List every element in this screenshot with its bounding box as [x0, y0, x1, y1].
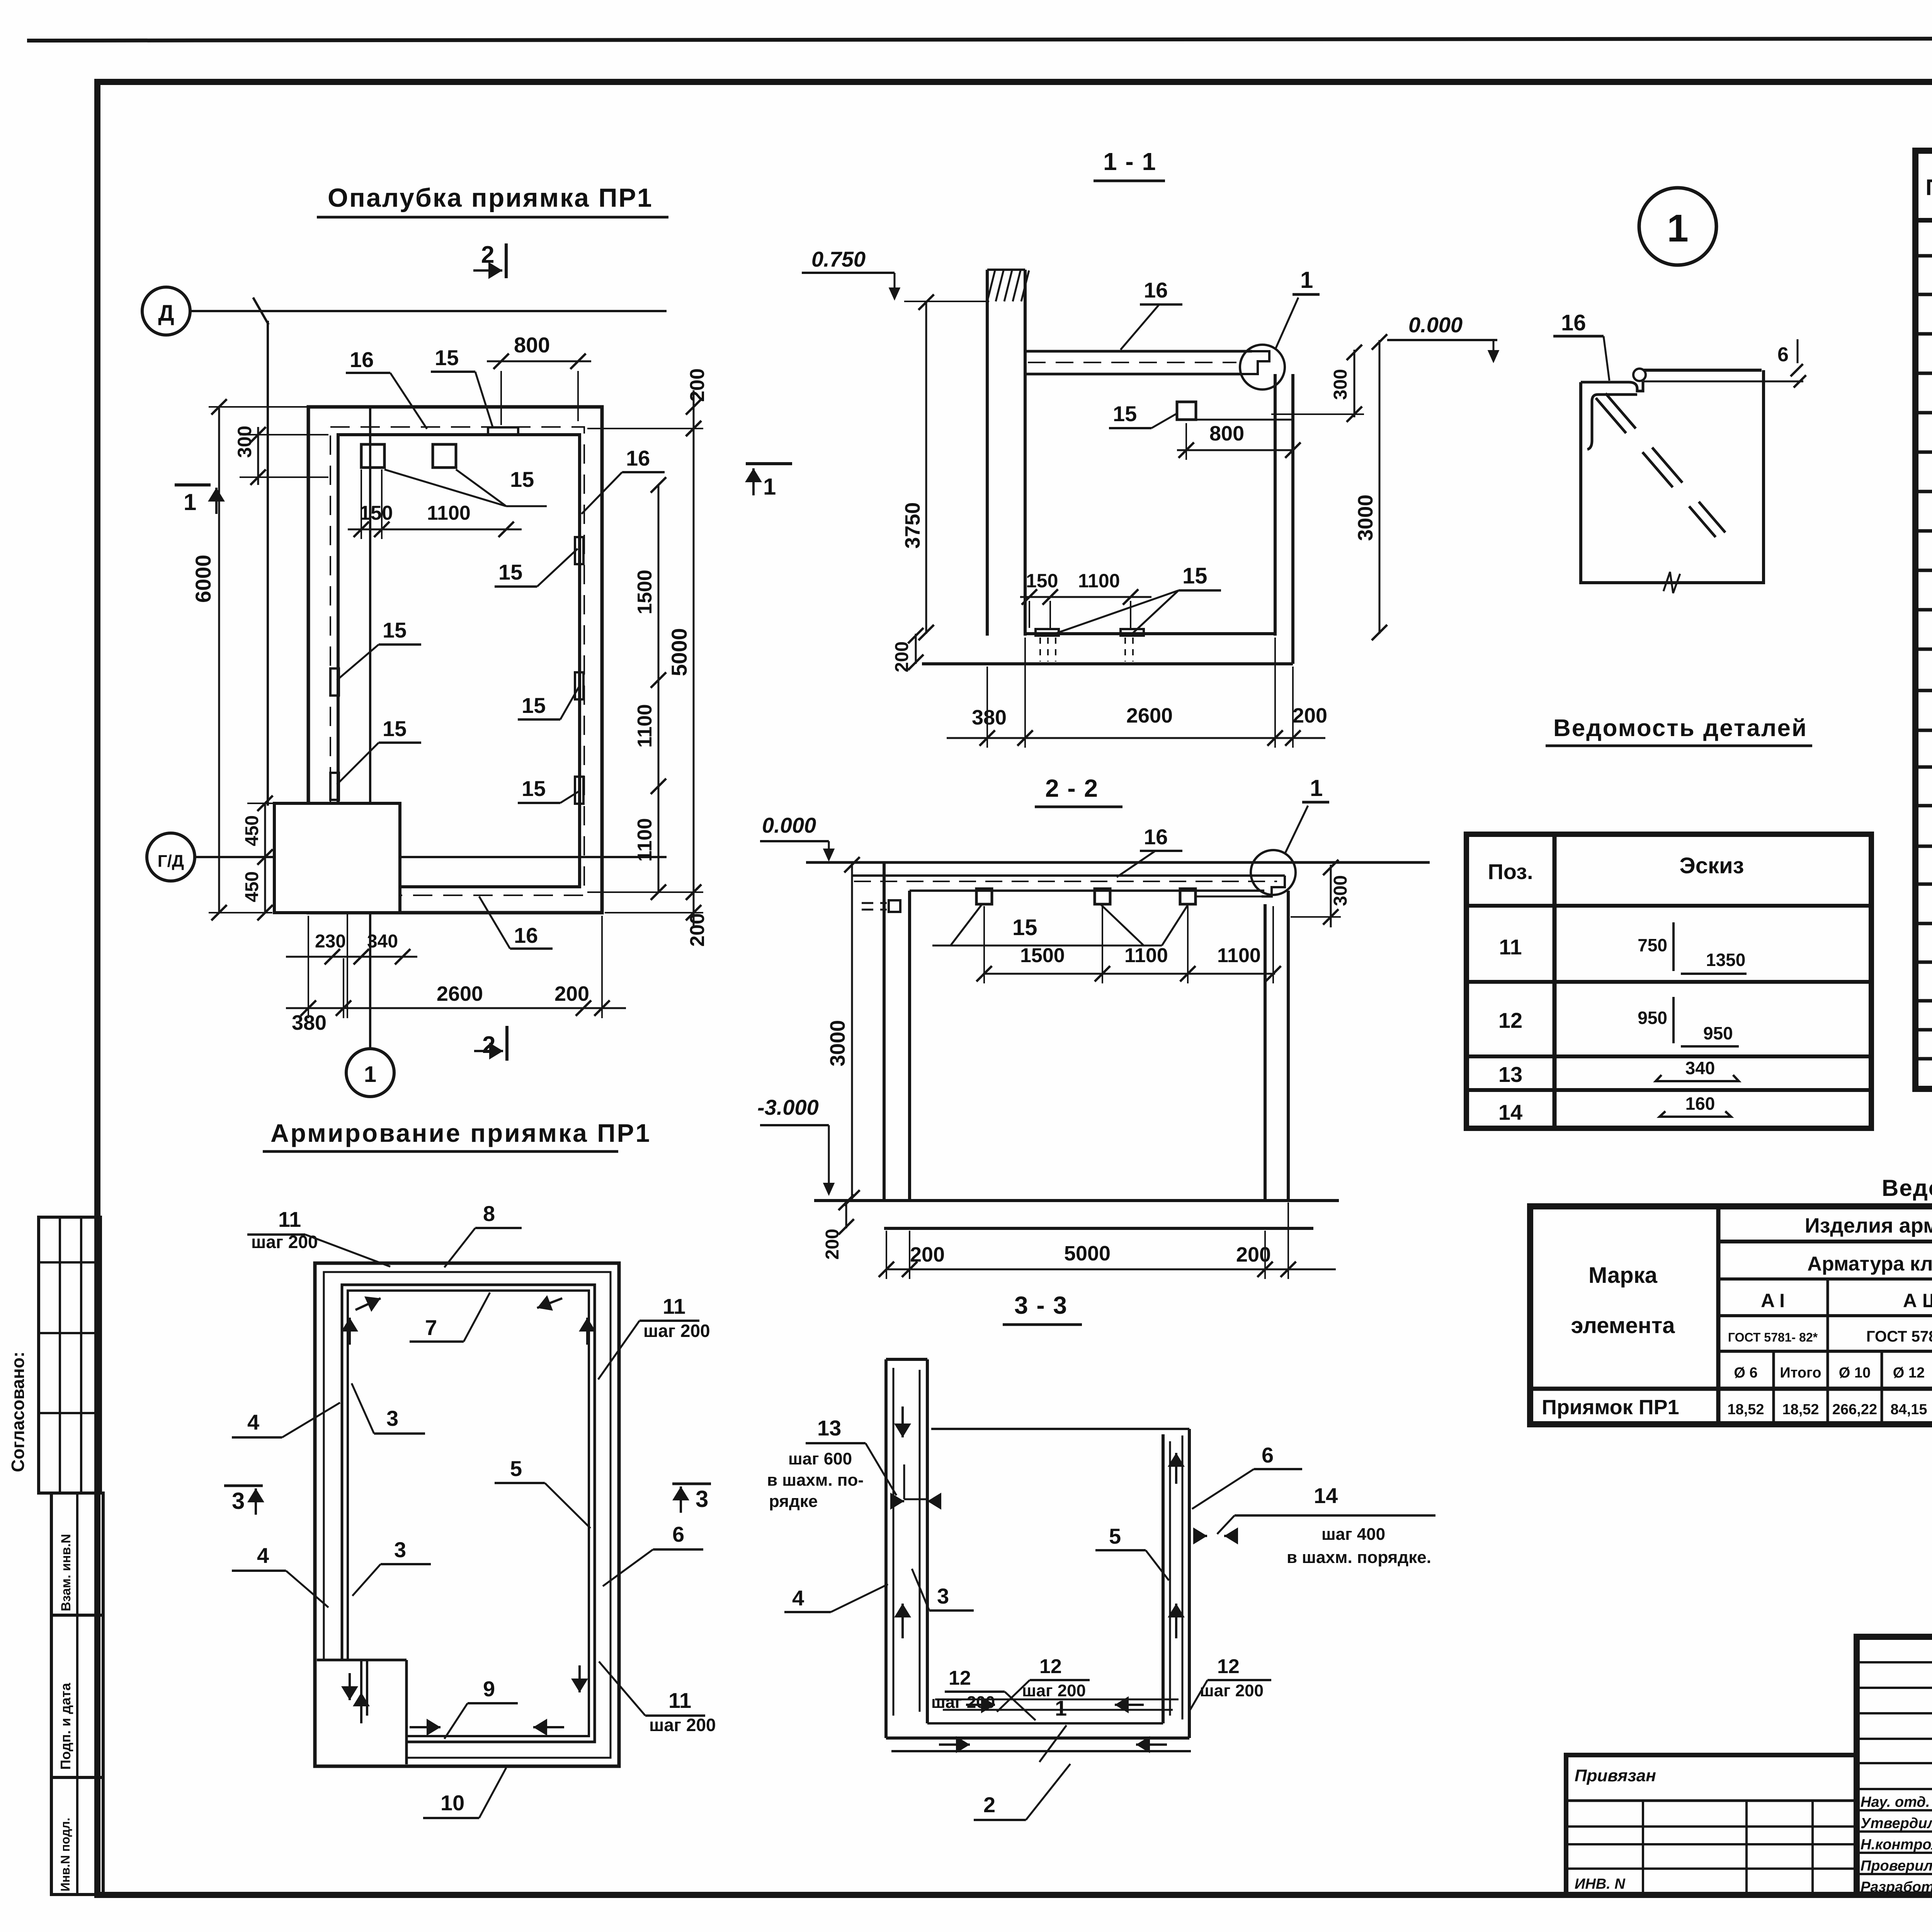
- svg-text:16: 16: [1144, 825, 1168, 849]
- 3-3 left upstand rebar: [893, 1368, 895, 1716]
- 1-1 floor slab: [1025, 632, 1275, 635]
- svg-text:Привязан: Привязан: [1575, 1766, 1656, 1785]
- arm mid contour: [324, 1272, 611, 1758]
- svg-text:Ø 6: Ø 6: [1734, 1365, 1757, 1381]
- 3-3 step600 marks: [903, 1464, 905, 1499]
- arm outer contour: [315, 1263, 619, 1766]
- svg-text:1100: 1100: [1124, 944, 1168, 967]
- svg-text:15: 15: [1012, 915, 1037, 940]
- svg-text:рядке: рядке: [769, 1492, 818, 1511]
- axis 1 circle bottom: [346, 1049, 394, 1097]
- svg-text:Г/Д: Г/Д: [158, 852, 184, 871]
- svg-text:16: 16: [514, 923, 538, 947]
- svg-text:2600: 2600: [437, 982, 483, 1005]
- svg-text:A I: A I: [1761, 1290, 1785, 1311]
- 3-3 right rebar: [1169, 1441, 1171, 1716]
- svg-text:16: 16: [1561, 310, 1586, 335]
- svg-text:1: 1: [364, 1062, 376, 1087]
- steel marka cell: [1716, 1206, 1721, 1424]
- svg-text:6: 6: [1777, 344, 1789, 366]
- svg-text:300: 300: [1330, 875, 1351, 906]
- plan inner wall: [338, 435, 580, 887]
- svg-text:9: 9: [483, 1677, 495, 1701]
- embedded plates left wall: [330, 668, 339, 696]
- 2-2 left wall: [883, 862, 886, 1201]
- axis G/D line: [195, 856, 667, 858]
- svg-text:Марка: Марка: [1588, 1263, 1658, 1288]
- svg-text:Армирование приямка ПР1: Армирование приямка ПР1: [270, 1119, 651, 1147]
- svg-text:0.000: 0.000: [762, 813, 816, 837]
- plan step rectangle: [274, 803, 400, 913]
- svg-text:2: 2: [481, 241, 494, 268]
- svg-text:4: 4: [247, 1410, 259, 1434]
- steel table grid: [1530, 1206, 1932, 1424]
- svg-text:шаг 400: шаг 400: [1321, 1525, 1385, 1544]
- svg-text:5000: 5000: [667, 628, 691, 676]
- 1-1 right wall: [1274, 374, 1277, 636]
- 1-1 floor plates: [1036, 629, 1059, 636]
- svg-text:Ведомость деталей: Ведомость деталей: [1553, 715, 1808, 742]
- 1-1 embedded square: [1177, 402, 1196, 420]
- arm step rebar: [360, 1660, 362, 1719]
- podp i data cell: [51, 1615, 103, 1777]
- svg-text:11: 11: [278, 1207, 301, 1231]
- svg-text:1: 1: [763, 474, 776, 500]
- svg-text:15: 15: [510, 467, 534, 492]
- arm direction arrows: [355, 1298, 381, 1310]
- svg-text:1: 1: [1310, 775, 1323, 801]
- 3-3 top edge right part: [931, 1428, 1189, 1430]
- dim 450 450 left: [264, 803, 266, 913]
- dim 230 340: [286, 956, 417, 958]
- svg-text:12: 12: [1039, 1655, 1062, 1678]
- svg-text:3: 3: [386, 1406, 398, 1430]
- svg-text:4: 4: [257, 1543, 269, 1568]
- detail plate top line: [1643, 369, 1762, 372]
- arm rebar rect outer: [342, 1285, 595, 1742]
- svg-text:Проверил: Проверил: [1861, 1858, 1932, 1874]
- svg-text:1500: 1500: [1020, 944, 1065, 967]
- 1-1 wall lines: [986, 270, 989, 636]
- svg-text:150: 150: [359, 502, 393, 524]
- svg-text:1100: 1100: [634, 704, 656, 748]
- detail plate small circle: [1633, 369, 1646, 381]
- axis D line: [190, 310, 667, 312]
- 2-2 left plate detail: [889, 900, 900, 912]
- svg-text:450: 450: [242, 871, 262, 902]
- svg-text:11: 11: [663, 1294, 685, 1318]
- dim 5000 right: [693, 429, 695, 892]
- svg-text:12: 12: [1217, 1655, 1240, 1678]
- svg-text:15: 15: [1113, 401, 1137, 426]
- svg-text:Н.контроль: Н.контроль: [1861, 1837, 1932, 1853]
- svg-text:12: 12: [1498, 1008, 1522, 1032]
- 2-2 top slab: [852, 874, 1285, 877]
- soglasovano block grid: [39, 1217, 100, 1493]
- svg-text:10: 10: [440, 1791, 464, 1815]
- svg-text:1: 1: [1300, 267, 1313, 293]
- svg-text:ГОСТ 5781- 82*: ГОСТ 5781- 82*: [1866, 1328, 1932, 1345]
- svg-text:1100: 1100: [1217, 944, 1261, 967]
- svg-text:элемента: элемента: [1571, 1313, 1675, 1338]
- 1-1 dim 3000: [1379, 340, 1381, 634]
- svg-text:ГОСТ 5781- 82*: ГОСТ 5781- 82*: [1728, 1330, 1818, 1344]
- svg-text:1: 1: [184, 489, 196, 515]
- svg-text:Д: Д: [158, 301, 174, 326]
- svg-text:6000: 6000: [191, 554, 215, 603]
- svg-text:5: 5: [1109, 1524, 1121, 1548]
- 2-2 right wall: [1287, 891, 1290, 1201]
- svg-text:3000: 3000: [1354, 495, 1377, 541]
- svg-text:0.000: 0.000: [1408, 313, 1463, 337]
- detail body outline: [1581, 370, 1764, 583]
- svg-text:266,22: 266,22: [1832, 1401, 1877, 1418]
- svg-text:3: 3: [394, 1537, 406, 1562]
- axis vertical line 1: [369, 406, 371, 1049]
- arm step cutout: [317, 1660, 406, 1764]
- 3-3 right wall: [1162, 1434, 1165, 1723]
- 3-3 bottom slab: [886, 1736, 1189, 1740]
- svg-text:3000: 3000: [826, 1020, 849, 1066]
- svg-text:в шахм. порядке.: в шахм. порядке.: [1287, 1548, 1431, 1567]
- vedomost detaley table: [1466, 834, 1871, 1128]
- svg-text:18,52: 18,52: [1727, 1401, 1764, 1418]
- svg-text:12: 12: [949, 1667, 971, 1689]
- svg-text:Подп. и дата: Подп. и дата: [58, 1682, 73, 1770]
- svg-text:950: 950: [1703, 1023, 1733, 1043]
- 3-3 bottom rebar lines: [935, 1699, 1179, 1701]
- 3-3 arrows bottom: [966, 1704, 995, 1706]
- svg-text:200: 200: [686, 368, 709, 402]
- svg-text:800: 800: [1209, 422, 1244, 445]
- guide vertical 230: [347, 806, 348, 1018]
- 1-1 top slab: [1025, 350, 1252, 353]
- 2-2 ground line: [806, 861, 1430, 864]
- svg-text:шаг 200: шаг 200: [1022, 1681, 1086, 1700]
- svg-text:Эскиз: Эскиз: [1679, 853, 1744, 878]
- title block outline: [1857, 1637, 1932, 1895]
- svg-text:84,15: 84,15: [1890, 1401, 1927, 1418]
- arm rebar rect inner: [348, 1291, 589, 1736]
- plan outer wall: [308, 407, 602, 913]
- embedded plates right wall: [575, 537, 583, 564]
- svg-text:340: 340: [367, 931, 398, 952]
- detail N break mark: [1663, 572, 1680, 593]
- svg-text:6: 6: [1262, 1443, 1274, 1467]
- svg-text:16: 16: [1144, 278, 1168, 302]
- svg-text:13: 13: [817, 1416, 841, 1440]
- 2-2 bottom dim 200 5000 200: [886, 1269, 1336, 1270]
- svg-text:7: 7: [425, 1315, 437, 1340]
- svg-text:5000: 5000: [1064, 1242, 1111, 1265]
- bottom dim 380 2600 200: [286, 1007, 626, 1009]
- svg-text:ИНВ. N: ИНВ. N: [1575, 1876, 1626, 1892]
- svg-text:380: 380: [972, 706, 1007, 729]
- svg-text:15: 15: [383, 618, 406, 642]
- svg-text:8: 8: [483, 1201, 495, 1226]
- embedded squares 15 on top wall: [361, 444, 384, 468]
- svg-text:16: 16: [350, 347, 374, 372]
- svg-text:340: 340: [1685, 1058, 1715, 1078]
- svg-text:16: 16: [626, 446, 650, 470]
- 1-1 existing wall hatch: [987, 269, 1025, 271]
- axis G/D circle: [147, 833, 195, 881]
- svg-text:3: 3: [232, 1488, 245, 1514]
- dim 6000 left: [218, 407, 220, 913]
- svg-text:2600: 2600: [1126, 704, 1173, 727]
- svg-text:230: 230: [315, 931, 346, 952]
- inv N podl cell: [51, 1777, 103, 1895]
- svg-text:15: 15: [383, 716, 406, 741]
- svg-text:300: 300: [1330, 369, 1351, 400]
- svg-text:11: 11: [1499, 935, 1522, 959]
- 2-2 slab corner detail: [1262, 876, 1285, 896]
- svg-text:Изделия арматурные: Изделия арматурные: [1805, 1214, 1932, 1237]
- svg-text:5: 5: [510, 1456, 522, 1481]
- vzam inv N cell: [51, 1493, 103, 1615]
- svg-text:1: 1: [1055, 1696, 1067, 1720]
- svg-text:750: 750: [1638, 935, 1667, 955]
- 1-1 dim 3750: [925, 301, 927, 634]
- spec table outline: [1915, 151, 1932, 1089]
- svg-text:1100: 1100: [1078, 570, 1120, 592]
- svg-text:4: 4: [792, 1586, 804, 1610]
- axis D circle: [142, 287, 190, 335]
- svg-text:в шахм. по-: в шахм. по-: [767, 1471, 864, 1490]
- svg-text:Согласовано:: Согласовано:: [8, 1352, 28, 1472]
- svg-text:Поз.: Поз.: [1925, 175, 1932, 200]
- svg-text:11: 11: [668, 1688, 691, 1713]
- privyazan block: [1566, 1755, 1857, 1895]
- svg-text:1100: 1100: [427, 502, 471, 524]
- svg-text:3: 3: [696, 1486, 708, 1512]
- 2-2 floor: [814, 1199, 1339, 1202]
- svg-text:Приямок ПР1: Приямок ПР1: [1542, 1396, 1679, 1419]
- 2-2 dim 3000: [851, 862, 853, 1201]
- svg-text:1500: 1500: [634, 570, 656, 614]
- svg-text:Взам. инв.N: Взам. инв.N: [59, 1534, 73, 1611]
- svg-text:Поз.: Поз.: [1488, 859, 1533, 884]
- 3-3 left upstand: [884, 1359, 888, 1738]
- detail diagonal dashed: [1596, 398, 1716, 537]
- svg-text:1350: 1350: [1706, 950, 1745, 970]
- detail 1 circle: [1639, 188, 1716, 265]
- svg-text:шаг 200: шаг 200: [643, 1321, 710, 1341]
- plan wall dashed liner: [330, 427, 584, 895]
- svg-text:950: 950: [1638, 1008, 1667, 1028]
- detail MN555 profile: [1581, 381, 1643, 391]
- 1-1 bottom dim 380 2600 200: [947, 737, 1325, 739]
- svg-text:Опалубка приямка ПР1: Опалубка приямка ПР1: [328, 183, 653, 213]
- svg-text:шаг 600: шаг 600: [788, 1449, 852, 1468]
- svg-text:200: 200: [554, 982, 589, 1005]
- svg-text:3750: 3750: [901, 502, 924, 549]
- svg-text:шаг 200: шаг 200: [649, 1715, 716, 1735]
- 3-3 arrows top: [901, 1406, 904, 1437]
- svg-text:3: 3: [937, 1584, 949, 1608]
- svg-text:1: 1: [1667, 207, 1689, 250]
- dim chain right 1500 1100 1100: [658, 485, 660, 892]
- svg-text:15: 15: [522, 693, 546, 718]
- svg-text:2 - 2: 2 - 2: [1045, 774, 1099, 802]
- axis vertical line left: [267, 321, 269, 806]
- svg-text:Ø 10: Ø 10: [1839, 1365, 1871, 1381]
- svg-text:450: 450: [242, 815, 262, 846]
- svg-text:18,52: 18,52: [1782, 1401, 1819, 1418]
- svg-text:1100: 1100: [634, 818, 656, 862]
- svg-text:Ведомость расхода стали , кг: Ведомость расхода стали , кг.: [1882, 1175, 1932, 1201]
- svg-text:шаг 200: шаг 200: [1200, 1681, 1264, 1700]
- svg-text:Разработал: Разработал: [1861, 1879, 1932, 1895]
- embedded plate top wall: [488, 427, 518, 435]
- svg-text:Инв.N подл.: Инв.N подл.: [58, 1818, 72, 1891]
- svg-text:Итого: Итого: [1780, 1365, 1821, 1381]
- svg-text:13: 13: [1498, 1062, 1522, 1087]
- svg-text:2: 2: [983, 1793, 995, 1817]
- svg-text:Ø 12: Ø 12: [1893, 1365, 1925, 1381]
- svg-text:200: 200: [910, 1243, 945, 1266]
- steel verticals left: [1772, 1351, 1775, 1424]
- svg-text:Арматура класса: Арматура класса: [1807, 1253, 1932, 1275]
- svg-text:15: 15: [435, 345, 459, 370]
- svg-text:15: 15: [522, 776, 546, 801]
- svg-text:14: 14: [1498, 1100, 1522, 1124]
- svg-text:-3.000: -3.000: [757, 1095, 819, 1119]
- sheet outer top border: [27, 38, 1932, 41]
- 2-2 embedded squares: [976, 889, 992, 904]
- svg-text:200: 200: [1293, 704, 1327, 727]
- detail plate thin line: [1643, 381, 1803, 383]
- svg-text:800: 800: [514, 333, 550, 357]
- svg-text:3 - 3: 3 - 3: [1014, 1291, 1068, 1319]
- svg-text:15: 15: [498, 560, 522, 584]
- svg-text:6: 6: [672, 1522, 684, 1546]
- svg-text:Нау. отд.: Нау. отд.: [1861, 1794, 1930, 1810]
- svg-text:Утвердил: Утвердил: [1861, 1815, 1932, 1832]
- 1-1 slab corner detail: [1240, 351, 1269, 374]
- svg-text:150: 150: [1026, 570, 1058, 592]
- svg-text:160: 160: [1685, 1094, 1715, 1114]
- svg-text:А Ш: А Ш: [1903, 1290, 1932, 1311]
- svg-text:0.750: 0.750: [811, 247, 866, 271]
- svg-text:1 - 1: 1 - 1: [1103, 148, 1156, 175]
- svg-text:15: 15: [1182, 563, 1207, 588]
- svg-text:14: 14: [1314, 1483, 1338, 1508]
